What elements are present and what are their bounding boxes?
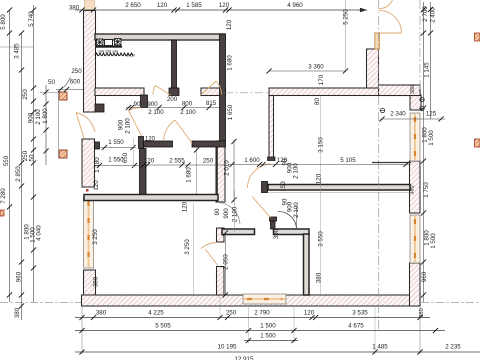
bedroom top wall right part bbox=[274, 229, 310, 235]
left dim line x33 bbox=[33, 5, 35, 302]
store wall lower segment bbox=[217, 267, 225, 296]
bath wall horizontal left bbox=[144, 141, 173, 147]
svg-text:1 550: 1 550 bbox=[108, 139, 124, 146]
left wall door arc bbox=[76, 113, 95, 133]
svg-text:4 960: 4 960 bbox=[287, 2, 303, 9]
entry door jamb bbox=[375, 33, 380, 49]
centerline bottom left bbox=[0, 302, 81, 304]
svg-text:815: 815 bbox=[206, 100, 217, 107]
svg-text:1 650: 1 650 bbox=[227, 104, 234, 120]
hall pier on left wall bbox=[95, 104, 104, 112]
red marker left edge bbox=[0, 210, 4, 216]
bedroom door leaf diagonal bbox=[252, 197, 271, 218]
terrace wall vertical bbox=[269, 96, 274, 158]
svg-text:120: 120 bbox=[316, 173, 323, 184]
svg-text:1 680: 1 680 bbox=[186, 167, 193, 183]
svg-text:120: 120 bbox=[93, 180, 100, 191]
svg-text:5 505: 5 505 bbox=[155, 323, 171, 330]
bottom dim row3 line bbox=[244, 340, 298, 342]
column K1 bbox=[59, 92, 67, 100]
svg-text:4 225: 4 225 bbox=[148, 310, 164, 317]
store door A arc bbox=[219, 203, 241, 225]
svg-text:380: 380 bbox=[69, 5, 80, 12]
long partition right of upper rooms bbox=[220, 34, 226, 142]
svg-text:3 550: 3 550 bbox=[318, 231, 325, 247]
svg-text:5 105: 5 105 bbox=[340, 157, 356, 164]
svg-text:140 236 140: 140 236 140 bbox=[98, 50, 118, 54]
svg-text:250: 250 bbox=[71, 68, 82, 75]
svg-text:2 790: 2 790 bbox=[254, 310, 270, 317]
red section marker right top bbox=[475, 33, 480, 41]
svg-text:1 145: 1 145 bbox=[424, 62, 431, 78]
dim line x423 vertical bbox=[423, 2, 425, 119]
window W1 in left wall bbox=[84, 197, 94, 268]
dim line 1550 upper bbox=[101, 147, 137, 149]
column axis line bbox=[58, 92, 60, 158]
svg-text:120: 120 bbox=[157, 2, 168, 9]
store wall solid mid segment bbox=[217, 228, 225, 242]
terrace wall end cap bbox=[268, 157, 276, 161]
partition stub base bbox=[169, 88, 179, 96]
terrace door arc bbox=[248, 164, 272, 188]
hall door arc bbox=[164, 120, 176, 140]
svg-text:2 340: 2 340 bbox=[390, 111, 406, 118]
svg-text:2 100: 2 100 bbox=[180, 109, 196, 116]
entry porch column bbox=[367, 49, 379, 89]
top wall of right section bbox=[269, 88, 420, 96]
svg-text:1 500: 1 500 bbox=[260, 333, 276, 340]
centerline bottom right bbox=[421, 302, 480, 304]
top dim chain line bbox=[75, 9, 367, 11]
bedroom door arc east bbox=[278, 211, 297, 229]
bath door leaf bbox=[129, 111, 142, 137]
svg-text:120: 120 bbox=[226, 19, 233, 30]
svg-text:3 150: 3 150 bbox=[318, 137, 325, 153]
svg-text:80: 80 bbox=[314, 98, 321, 105]
svg-text:2 230: 2 230 bbox=[127, 54, 136, 58]
svg-text:2 100: 2 100 bbox=[35, 109, 42, 125]
left dim line x21 bbox=[21, 33, 23, 320]
bedroom door stub bbox=[271, 221, 276, 230]
svg-text:120: 120 bbox=[144, 158, 155, 165]
hatched wall under upper-left room left part bbox=[95, 88, 144, 96]
lower-left room top wall bbox=[84, 195, 218, 201]
svg-text:380: 380 bbox=[96, 310, 107, 317]
exterior right wall top segment bbox=[410, 95, 421, 110]
svg-text:2 700: 2 700 bbox=[422, 6, 429, 22]
svg-text:380: 380 bbox=[316, 272, 323, 283]
svg-text:50: 50 bbox=[48, 79, 55, 86]
svg-text:1 750: 1 750 bbox=[423, 182, 430, 198]
upper-left room door arc bbox=[153, 86, 156, 95]
left dim line x9 bbox=[9, 10, 11, 302]
svg-text:800: 800 bbox=[182, 101, 193, 108]
svg-text:170: 170 bbox=[318, 74, 325, 85]
window W5 in bottom wall bbox=[243, 294, 286, 304]
svg-text:380: 380 bbox=[14, 307, 21, 318]
top wall of upper-left rooms bbox=[95, 34, 225, 40]
bottom ext lines bbox=[81, 306, 83, 354]
interior dim chain y107 bbox=[126, 107, 222, 109]
bedroom door stub cap bbox=[270, 217, 277, 221]
hall wall y185 horizontal bbox=[268, 185, 410, 191]
svg-text:900: 900 bbox=[147, 101, 158, 108]
store door B leaf bbox=[206, 250, 218, 266]
svg-text:50: 50 bbox=[29, 154, 36, 161]
store door B arc bbox=[201, 242, 218, 248]
svg-text:390: 390 bbox=[273, 228, 280, 239]
svg-text:1 600: 1 600 bbox=[244, 157, 260, 164]
svg-text:1 550: 1 550 bbox=[108, 157, 124, 164]
svg-text:125: 125 bbox=[426, 111, 437, 118]
red section marker right mid bbox=[475, 139, 480, 147]
svg-text:200: 200 bbox=[167, 96, 178, 103]
centerline right wall axis bbox=[419, 0, 421, 90]
bath right wall hatched bbox=[216, 141, 225, 202]
bottom dim row1 line bbox=[75, 317, 430, 319]
dim line x430 vertical bbox=[430, 2, 432, 119]
survey marker circle 2 bbox=[420, 106, 424, 110]
svg-text:1 500: 1 500 bbox=[260, 323, 276, 330]
orange door continuation above section cut bbox=[85, 0, 95, 10]
svg-text:380: 380 bbox=[93, 276, 100, 287]
chimney block open square bbox=[105, 40, 113, 46]
svg-text:2 650: 2 650 bbox=[125, 2, 141, 9]
extension line x234 bbox=[234, 190, 236, 232]
top ext line y47 bbox=[0, 46, 33, 48]
svg-text:120: 120 bbox=[145, 137, 156, 143]
svg-text:960: 960 bbox=[16, 271, 23, 282]
centerline entry axis bbox=[378, 0, 380, 330]
exterior right wall mid segment bbox=[410, 161, 421, 213]
svg-text:2 400: 2 400 bbox=[430, 7, 437, 23]
svg-text:2 050: 2 050 bbox=[223, 254, 230, 270]
column K2 bbox=[59, 150, 67, 158]
window W4 in right wall bbox=[410, 215, 420, 263]
dim chain y165 bbox=[140, 164, 225, 166]
svg-text:1 500: 1 500 bbox=[428, 130, 435, 146]
top dim chain ticks bbox=[79, 7, 84, 12]
radiator tick row bbox=[95, 53, 98, 56]
bath left wall lower segment bbox=[140, 149, 147, 196]
svg-text:380: 380 bbox=[419, 308, 425, 318]
exterior bottom wall bbox=[82, 295, 421, 306]
bath wall vertical upper bbox=[141, 95, 148, 108]
hall wall y185 end cap bbox=[262, 182, 268, 193]
svg-text:3 250: 3 250 bbox=[184, 239, 191, 255]
dim line y162 bbox=[95, 165, 140, 167]
svg-text:2 235: 2 235 bbox=[445, 344, 461, 351]
svg-text:960: 960 bbox=[421, 271, 428, 282]
svg-text:4 675: 4 675 bbox=[348, 323, 364, 330]
svg-text:250: 250 bbox=[226, 310, 237, 317]
survey marker circle 3 bbox=[380, 108, 384, 112]
extension line x345 bbox=[345, 0, 347, 71]
top dim arrow right bbox=[360, 8, 367, 12]
extension line x193 bbox=[192, 203, 194, 295]
svg-text:3 535: 3 535 bbox=[352, 310, 368, 317]
svg-text:3 360: 3 360 bbox=[308, 64, 324, 71]
bottom dim row2 line bbox=[75, 330, 445, 332]
svg-text:120: 120 bbox=[219, 2, 230, 9]
svg-text:3 250: 3 250 bbox=[92, 229, 99, 245]
top wall right room thicker part bbox=[379, 85, 421, 96]
entry door open leaf line bbox=[379, 32, 402, 34]
svg-text:550: 550 bbox=[3, 155, 10, 166]
svg-text:5 740: 5 740 bbox=[28, 11, 35, 27]
svg-text:5 250: 5 250 bbox=[343, 9, 350, 25]
svg-text:2 100: 2 100 bbox=[125, 118, 132, 134]
bottom dim row4 line bbox=[75, 351, 480, 353]
svg-text:380: 380 bbox=[410, 185, 416, 194]
fixture base bar bbox=[95, 46, 122, 48]
upper-left room door leaf bbox=[156, 86, 171, 96]
door offset dim line bbox=[56, 89, 84, 91]
svg-text:7 280: 7 280 bbox=[0, 188, 7, 204]
bath wall stub on left wall bbox=[95, 142, 100, 149]
dim line y119 bbox=[380, 118, 445, 120]
extension line x320 bbox=[320, 96, 322, 295]
svg-text:2 100: 2 100 bbox=[148, 109, 164, 116]
entry double door arc upper bbox=[379, 0, 394, 9]
right dim line x423 low bbox=[423, 119, 425, 302]
chimney block crosshatched square 2 bbox=[115, 39, 122, 46]
svg-text:2 010: 2 010 bbox=[224, 160, 231, 176]
svg-text:600: 600 bbox=[70, 79, 81, 86]
partition between upper rooms bbox=[172, 40, 177, 89]
exterior left wall mid segment bbox=[82, 139, 95, 187]
bath wall vertical cap bbox=[139, 137, 144, 149]
dim chain y164 middle bbox=[228, 164, 410, 166]
upper-right room door arc bbox=[216, 81, 222, 95]
svg-text:4 040: 4 040 bbox=[36, 225, 43, 241]
svg-text:900: 900 bbox=[28, 112, 35, 123]
survey marker circle 1 bbox=[420, 97, 424, 101]
svg-text:120: 120 bbox=[182, 201, 189, 212]
svg-text:900: 900 bbox=[223, 208, 230, 219]
svg-text:90: 90 bbox=[214, 208, 221, 215]
chimney block crosshatched square 1 bbox=[97, 39, 104, 46]
svg-text:380: 380 bbox=[410, 85, 416, 94]
svg-text:3 485: 3 485 bbox=[14, 43, 21, 59]
dim line 3360 bbox=[269, 70, 346, 72]
svg-text:900: 900 bbox=[118, 119, 125, 130]
centerline terrace horizontal bbox=[225, 92, 268, 94]
svg-text:10 195: 10 195 bbox=[218, 344, 237, 351]
exterior left wall lower corner segment bbox=[84, 270, 96, 306]
svg-text:5 800: 5 800 bbox=[0, 14, 7, 30]
left wall door leaf bbox=[76, 113, 84, 139]
svg-text:90: 90 bbox=[134, 101, 141, 108]
exterior right wall lower segment bbox=[410, 263, 421, 306]
svg-text:1 680: 1 680 bbox=[227, 55, 234, 71]
hatched wall under upper-right room part bbox=[201, 88, 226, 96]
svg-text:1 485: 1 485 bbox=[372, 344, 388, 351]
sill line right wall bbox=[372, 162, 411, 164]
thin line below hall wall bbox=[268, 192, 410, 194]
small red dot on left wall bbox=[86, 189, 89, 192]
dim line 2050 vertical bbox=[224, 233, 226, 295]
svg-text:250: 250 bbox=[22, 89, 29, 100]
svg-text:12 915: 12 915 bbox=[235, 356, 254, 360]
dim line 2010 vertical bbox=[233, 140, 235, 202]
exterior left wall upper segment bbox=[84, 11, 96, 113]
upper-right room door leaf bbox=[201, 81, 216, 95]
svg-text:2 100: 2 100 bbox=[293, 163, 300, 179]
svg-text:1 800: 1 800 bbox=[42, 108, 49, 124]
bath wall horizontal right bbox=[192, 141, 226, 147]
bedroom top wall left part bbox=[222, 229, 255, 235]
bath right wall inner lining bbox=[216, 142, 218, 202]
svg-text:120: 120 bbox=[304, 310, 315, 317]
bedroom door frame line bbox=[296, 207, 298, 229]
left dim line x46 bbox=[45, 85, 47, 165]
extension line x196 bbox=[196, 147, 198, 201]
svg-text:1 585: 1 585 bbox=[186, 2, 202, 9]
column extension line bbox=[40, 92, 58, 94]
window W3 in right wall bbox=[410, 113, 420, 161]
door offset leader bbox=[61, 77, 71, 89]
svg-text:1 180: 1 180 bbox=[94, 157, 101, 173]
bath door arc bbox=[129, 108, 142, 111]
svg-text:2 555: 2 555 bbox=[169, 158, 185, 165]
svg-text:150: 150 bbox=[280, 181, 287, 192]
svg-text:1 500: 1 500 bbox=[430, 233, 437, 249]
svg-text:2 850: 2 850 bbox=[15, 166, 22, 182]
svg-text:2 100: 2 100 bbox=[232, 206, 239, 222]
svg-text:2 100: 2 100 bbox=[293, 202, 300, 218]
partition wall between bottom rooms bbox=[304, 234, 310, 295]
entry double door arc lower bbox=[379, 11, 402, 34]
svg-text:250: 250 bbox=[203, 158, 214, 165]
hall door leaf bbox=[175, 120, 192, 143]
